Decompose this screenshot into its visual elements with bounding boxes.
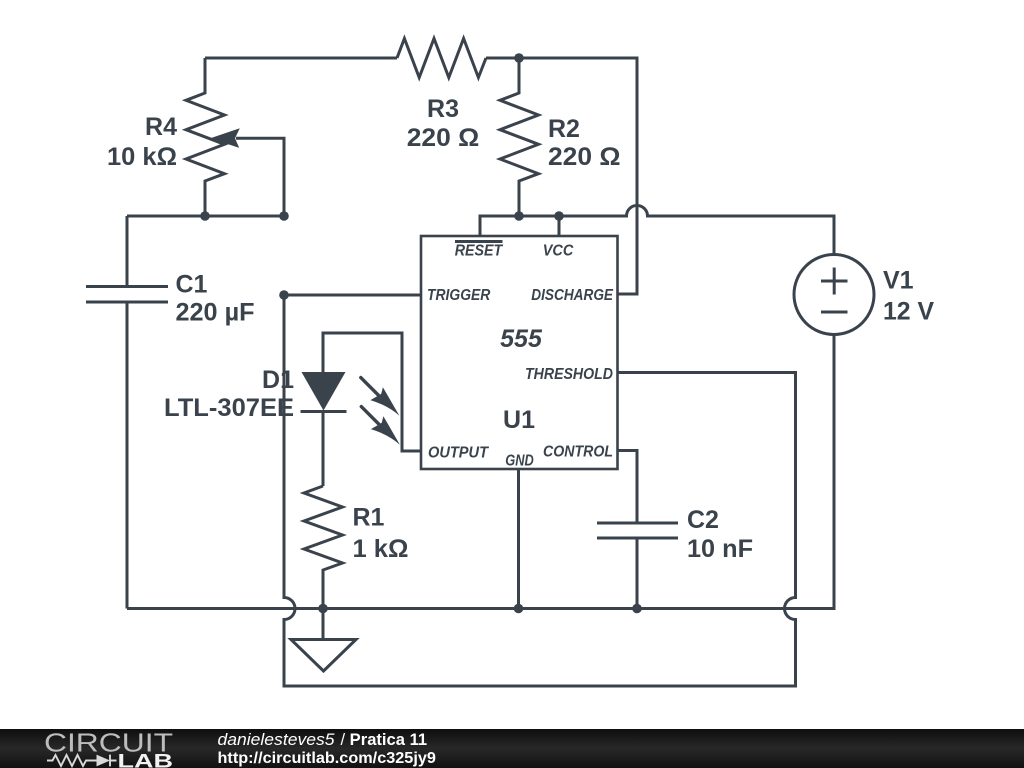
svg-text:LAB: LAB bbox=[118, 750, 174, 768]
svg-text:R2: R2 bbox=[548, 115, 580, 143]
V1 plus bbox=[821, 268, 848, 295]
node R1 bottom bbox=[318, 604, 328, 614]
wire LED to R1 bbox=[322, 412, 325, 487]
wire ground bus bbox=[127, 335, 834, 609]
svg-text:555: 555 bbox=[500, 325, 543, 353]
capacitor C2 bbox=[597, 523, 678, 538]
node R4 bottom bbox=[200, 211, 210, 221]
node C2 bottom bbox=[632, 604, 642, 614]
node wiper joint bbox=[279, 211, 289, 221]
svg-text:danielesteves5: danielesteves5 bbox=[218, 731, 336, 749]
resistor R1 bbox=[304, 486, 343, 609]
svg-text:220 Ω: 220 Ω bbox=[548, 143, 621, 171]
svg-text:OUTPUT: OUTPUT bbox=[428, 445, 489, 462]
svg-text:R4: R4 bbox=[145, 113, 177, 141]
wire VCC net bbox=[480, 206, 834, 256]
svg-text:V1: V1 bbox=[883, 267, 914, 295]
svg-text:220 µF: 220 µF bbox=[176, 299, 255, 327]
svg-text:http://circuitlab.com/c325jy9: http://circuitlab.com/c325jy9 bbox=[218, 750, 436, 767]
svg-text:LTL-307EE: LTL-307EE bbox=[164, 394, 294, 422]
IC U1 555 box bbox=[421, 236, 618, 469]
svg-text:D1: D1 bbox=[262, 366, 294, 394]
resistor R2 bbox=[500, 58, 539, 216]
wire C1 top lead bbox=[126, 216, 129, 287]
svg-text:R3: R3 bbox=[427, 95, 459, 123]
svg-text:U1: U1 bbox=[503, 406, 535, 434]
wire output net bbox=[323, 333, 421, 451]
svg-text:THRESHOLD: THRESHOLD bbox=[525, 366, 613, 383]
wire ground stub bbox=[322, 609, 325, 640]
node trigger bbox=[279, 290, 289, 300]
svg-text:220 Ω: 220 Ω bbox=[407, 124, 480, 152]
voltage source V1 bbox=[794, 255, 874, 335]
logo resistor-diode glyph bbox=[47, 755, 97, 766]
svg-text:Pratica 11: Pratica 11 bbox=[350, 731, 427, 749]
svg-text:RESET: RESET bbox=[455, 243, 504, 260]
svg-text:GND: GND bbox=[505, 453, 534, 470]
LED D1 triangle bbox=[302, 372, 346, 411]
wire R3 right to discharge vertical bbox=[486, 58, 637, 294]
wire trigger-threshold net bbox=[284, 295, 796, 686]
wire left top net bbox=[127, 215, 284, 218]
wire GND pin bbox=[517, 469, 520, 609]
capacitor C1 bbox=[86, 287, 168, 303]
resistor R4 bbox=[186, 58, 225, 216]
svg-text:VCC: VCC bbox=[543, 243, 574, 260]
svg-text:TRIGGER: TRIGGER bbox=[427, 287, 491, 304]
svg-text:1 kΩ: 1 kΩ bbox=[353, 535, 409, 563]
LED arrow 1 bbox=[361, 378, 383, 400]
ground symbol bbox=[291, 640, 356, 672]
node R2 top bbox=[514, 53, 524, 63]
svg-text:10 kΩ: 10 kΩ bbox=[107, 143, 177, 171]
svg-text:10 nF: 10 nF bbox=[687, 535, 753, 563]
resistor R3 bbox=[397, 39, 486, 78]
node R2 bottom bbox=[514, 211, 524, 221]
svg-text:DISCHARGE: DISCHARGE bbox=[531, 287, 614, 304]
svg-text:12 V: 12 V bbox=[883, 298, 934, 326]
svg-text:CONTROL: CONTROL bbox=[543, 444, 613, 461]
LED arrow 2 bbox=[361, 407, 383, 429]
wire C1 bottom lead bbox=[126, 302, 129, 609]
wire top net R4 top to R3 left bbox=[205, 57, 397, 60]
node GND bbox=[514, 604, 524, 614]
node VCC pin bbox=[554, 211, 564, 221]
LED D1 cathode bar bbox=[301, 410, 347, 413]
svg-text:C1: C1 bbox=[176, 271, 208, 299]
wiper arrow R4 bbox=[210, 128, 240, 148]
wire VCC pin bbox=[558, 216, 561, 236]
wire C2 bottom lead bbox=[636, 538, 639, 609]
svg-text:/: / bbox=[341, 731, 346, 749]
svg-text:R1: R1 bbox=[353, 504, 385, 532]
svg-text:C2: C2 bbox=[687, 506, 719, 534]
wire wiper bbox=[236, 138, 284, 216]
V1 minus bbox=[821, 311, 848, 314]
wire control net bbox=[618, 451, 638, 524]
